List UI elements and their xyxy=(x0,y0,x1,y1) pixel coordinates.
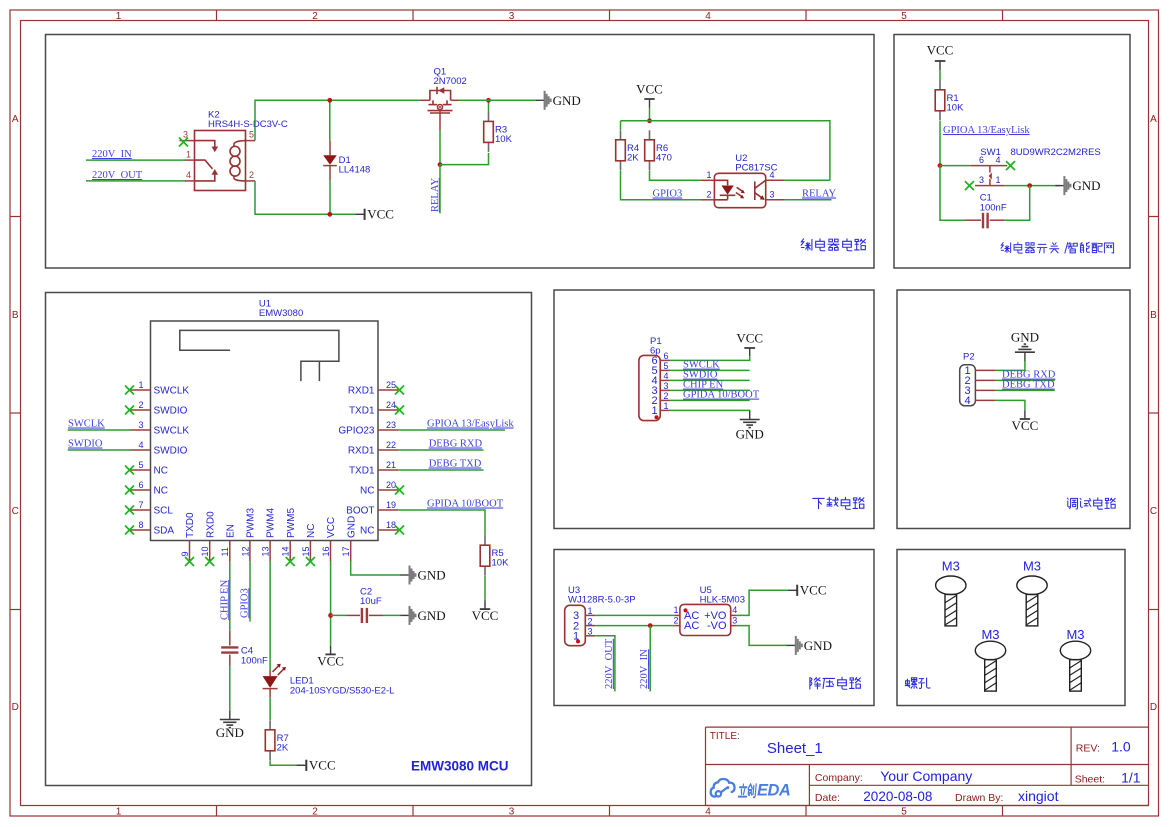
svg-text:1: 1 xyxy=(186,150,191,160)
wire LED1 to R7 xyxy=(269,697,271,720)
wire node down to C1 xyxy=(940,166,966,221)
screw hole M3 #3 xyxy=(975,627,1005,691)
svg-text:SWCLK: SWCLK xyxy=(154,426,190,437)
svg-text:SWCLK: SWCLK xyxy=(68,419,105,430)
svg-text:3: 3 xyxy=(509,11,515,22)
svg-text:10K: 10K xyxy=(947,102,965,113)
net label 220V_OUT (vertical) xyxy=(604,638,615,689)
svg-text:6: 6 xyxy=(138,480,143,490)
power flag GND switch xyxy=(1055,176,1100,195)
wire P2 pin1 to GND xyxy=(995,361,1025,370)
svg-text:DEBG TXD: DEBG TXD xyxy=(1002,380,1055,391)
svg-text:204-10SYGD/S530-E2-L: 204-10SYGD/S530-E2-L xyxy=(290,685,395,696)
wire VCC stem to opto rail xyxy=(649,108,651,121)
svg-text:AC: AC xyxy=(684,620,699,632)
svg-text:2: 2 xyxy=(138,400,143,410)
svg-text:GPIDA 10/BOOT: GPIDA 10/BOOT xyxy=(683,390,760,401)
relay switch / smart-config block box xyxy=(894,35,1130,269)
resistor R4 2K xyxy=(616,130,640,170)
svg-text:25: 25 xyxy=(386,380,396,390)
svg-text:A: A xyxy=(1150,114,1157,125)
screw hole M3 #4 xyxy=(1060,627,1090,691)
svg-text:1: 1 xyxy=(116,807,122,818)
svg-text:BOOT: BOOT xyxy=(346,506,374,517)
svg-text:2: 2 xyxy=(249,170,254,180)
caption 降压电路 xyxy=(810,677,861,689)
svg-text:B: B xyxy=(12,310,19,321)
wire SWCLK to U1 pin3 xyxy=(68,429,131,431)
svg-text:HRS4H-S-DC3V-C: HRS4H-S-DC3V-C xyxy=(208,119,288,130)
wire node to SW1 pin6 xyxy=(940,165,971,167)
caption 调试电路 xyxy=(1067,498,1115,509)
relay circuit block box xyxy=(46,35,875,269)
screw holes block box xyxy=(897,550,1125,706)
svg-text:12: 12 xyxy=(240,546,250,556)
svg-text:220V_IN: 220V_IN xyxy=(92,149,132,160)
power flag VCC under R5 xyxy=(472,601,499,624)
wire C4 to GND xyxy=(229,666,231,712)
svg-text:4: 4 xyxy=(964,395,970,407)
power flag VCC R7 xyxy=(297,758,336,773)
svg-text:11: 11 xyxy=(220,547,230,556)
title label REV: xyxy=(1076,742,1100,754)
svg-text:1: 1 xyxy=(138,380,143,390)
svg-text:CHIP EN: CHIP EN xyxy=(219,579,230,620)
svg-text:18: 18 xyxy=(386,520,396,530)
wire U1 pin22 xyxy=(398,449,484,451)
wire P1 pin5 xyxy=(670,369,750,371)
junction opto rail xyxy=(647,118,652,123)
svg-text:PWM3: PWM3 xyxy=(246,508,257,538)
power flag VCC P2 xyxy=(1012,410,1039,433)
wire 220V_OUT to K2 pin4 xyxy=(86,180,185,182)
frame row ticks xyxy=(10,217,1159,610)
svg-text:1: 1 xyxy=(673,605,678,615)
svg-text:GND: GND xyxy=(346,516,357,538)
header P2 xyxy=(960,352,995,408)
wire U1 pin21 xyxy=(398,469,484,471)
wire P2 pin4 to VCC xyxy=(995,400,1025,410)
svg-text:Company:: Company: xyxy=(815,772,863,784)
svg-text:17: 17 xyxy=(341,546,351,556)
svg-text:GND: GND xyxy=(804,638,832,653)
net label CHIP EN P1 xyxy=(683,380,724,391)
svg-text:8: 8 xyxy=(138,520,143,530)
frame column numbers top xyxy=(116,11,908,22)
svg-text:RXD0: RXD0 xyxy=(205,511,216,538)
net label GPIDA 10/BOOT P1 xyxy=(683,390,760,401)
svg-text:23: 23 xyxy=(386,420,396,430)
frame row letters left xyxy=(12,114,19,713)
net label GPIO3 (vertical) xyxy=(239,588,250,618)
wire RELAY stub down xyxy=(439,165,441,214)
wire U1 pin13 to LED1 xyxy=(269,561,271,670)
caption EMW3080 MCU xyxy=(411,759,509,774)
svg-text:VCC: VCC xyxy=(472,608,499,623)
logo text 立创EDA xyxy=(738,782,790,800)
net label SWDIO P1 xyxy=(683,370,718,381)
title value 1.0 xyxy=(1111,738,1131,754)
svg-text:2: 2 xyxy=(673,615,678,625)
svg-text:1.0: 1.0 xyxy=(1111,738,1131,754)
svg-text:M3: M3 xyxy=(1023,559,1041,574)
wire D1 to bottom rail xyxy=(329,180,331,214)
svg-text:4: 4 xyxy=(186,170,191,180)
net label 220V_IN (vertical) xyxy=(639,649,650,689)
svg-text:GND: GND xyxy=(418,568,446,583)
svg-text:VCC: VCC xyxy=(636,82,663,97)
wire U1 pin12 GPIO3 xyxy=(249,561,251,622)
wire P1 pin2 xyxy=(670,399,750,401)
svg-text:D: D xyxy=(1150,702,1157,713)
wire C2 to GND xyxy=(384,614,401,616)
svg-text:xingiot: xingiot xyxy=(1018,788,1059,804)
svg-text:VCC: VCC xyxy=(367,207,394,222)
svg-text:GPIO3: GPIO3 xyxy=(653,189,683,200)
wire C1 up to pin1 node xyxy=(1005,186,1030,221)
frame column numbers bottom xyxy=(116,807,908,818)
net label DEBG RXD mcu xyxy=(429,439,483,450)
wire 220V_IN to K2 pin1 xyxy=(86,159,185,161)
svg-text:Your Company: Your Company xyxy=(880,768,972,784)
frame column ticks xyxy=(217,10,1003,816)
net label GPIDA 10/BOOT mcu xyxy=(427,499,504,510)
svg-text:NC: NC xyxy=(154,466,168,477)
net label DEBG TXD P2 xyxy=(1002,380,1055,391)
svg-text:GPIO23: GPIO23 xyxy=(338,426,375,437)
svg-text:VCC: VCC xyxy=(927,43,954,58)
title value 2020-08-08 xyxy=(863,789,932,804)
svg-text:DEBG TXD: DEBG TXD xyxy=(429,459,482,470)
svg-text:NC: NC xyxy=(360,486,374,497)
wire SWDIO to U1 pin4 xyxy=(68,449,131,451)
svg-text:VCC: VCC xyxy=(800,583,827,598)
wire U3 pin1 to U5 xyxy=(595,614,674,616)
power flag GND relay rail xyxy=(536,91,581,110)
svg-text:VCC: VCC xyxy=(317,653,344,668)
resistor R3 10K xyxy=(484,112,513,152)
svg-text:3: 3 xyxy=(588,627,593,637)
svg-text:2: 2 xyxy=(312,11,318,22)
svg-text:2N7002: 2N7002 xyxy=(434,76,467,87)
svg-text:TXD0: TXD0 xyxy=(185,512,196,538)
svg-text:GND: GND xyxy=(1011,330,1039,345)
wire U1 pin19 to R5 xyxy=(398,510,485,536)
svg-text:7: 7 xyxy=(138,500,143,510)
svg-text:19: 19 xyxy=(386,500,396,510)
wire R7 to VCC xyxy=(270,761,304,766)
wire U1 pin11 to C4 xyxy=(229,561,231,631)
junction Q1 gate node xyxy=(438,162,443,167)
svg-text:220V_OUT: 220V_OUT xyxy=(604,638,615,689)
capacitor C4 100nF xyxy=(221,631,268,667)
MCU U1 EMW3080 xyxy=(125,299,404,567)
junction D1 bottom xyxy=(327,212,332,217)
wire K2 pin2 down to bottom rail xyxy=(255,181,330,214)
connector U3 WJ128R-5.0-3P xyxy=(565,585,636,646)
svg-text:4: 4 xyxy=(138,440,143,450)
caption 继电器电路 xyxy=(801,239,865,251)
wire opto top rail xyxy=(621,121,830,170)
svg-text:PWM4: PWM4 xyxy=(266,508,277,538)
svg-text:RELAY: RELAY xyxy=(430,178,441,212)
net label GPIOA 13/EasyLisk mcu xyxy=(427,419,514,430)
svg-text:13: 13 xyxy=(261,546,271,556)
svg-text:SWDIO: SWDIO xyxy=(154,406,188,417)
wire Q1 to GND xyxy=(459,99,536,101)
title value Sheet_1 xyxy=(767,740,823,757)
wire U5 pin4 to VCC xyxy=(736,590,787,615)
svg-text:14: 14 xyxy=(281,546,291,556)
wire rail down to R4 xyxy=(620,121,622,130)
svg-text:GPIDA 10/BOOT: GPIDA 10/BOOT xyxy=(427,499,504,510)
svg-text:5: 5 xyxy=(138,460,143,470)
wire U3 pin2 to U5 xyxy=(595,625,674,627)
svg-text:D: D xyxy=(12,702,19,713)
svg-text:2: 2 xyxy=(312,807,318,818)
svg-text:6: 6 xyxy=(979,155,984,165)
svg-text:1: 1 xyxy=(664,401,669,411)
svg-text:Drawn By:: Drawn By: xyxy=(955,792,1003,804)
svg-text:3: 3 xyxy=(770,190,775,200)
svg-text:2: 2 xyxy=(588,616,593,626)
svg-text:GPIOA 13/EasyLisk: GPIOA 13/EasyLisk xyxy=(943,125,1030,136)
svg-text:10K: 10K xyxy=(495,134,513,145)
wire R1 to switch node xyxy=(939,121,941,166)
wire U5 pin3 to GND xyxy=(736,626,787,646)
screw hole M3 #2 xyxy=(1017,559,1047,626)
svg-text:24: 24 xyxy=(386,400,396,410)
svg-text:LL4148: LL4148 xyxy=(339,165,371,176)
caption 继电器开关/智能配网 xyxy=(1001,242,1114,253)
wire P2 pin2 xyxy=(995,379,1055,381)
svg-text:GND: GND xyxy=(553,93,581,108)
svg-text:P2: P2 xyxy=(963,352,975,363)
net label SWDIO mcu xyxy=(68,439,103,450)
svg-text:3: 3 xyxy=(664,381,669,391)
svg-text:REV:: REV: xyxy=(1076,742,1100,754)
wire VCC to R1 xyxy=(939,70,941,81)
svg-text:4: 4 xyxy=(705,807,711,818)
svg-text:RELAY: RELAY xyxy=(802,189,836,200)
svg-text:16: 16 xyxy=(321,546,331,556)
wire bottom rail D1 to VCC xyxy=(330,213,355,215)
svg-text:EMW3080 MCU: EMW3080 MCU xyxy=(411,759,509,774)
svg-text:VCC: VCC xyxy=(309,758,336,773)
svg-text:3: 3 xyxy=(732,615,737,625)
download circuit block box xyxy=(554,290,874,529)
wire R5 to VCC xyxy=(484,576,486,601)
svg-text:GND: GND xyxy=(418,608,446,623)
logo cloud EasyEDA xyxy=(711,779,735,797)
wire gate node to R3 xyxy=(440,153,489,165)
transistor Q1 2N7002 xyxy=(420,67,467,131)
svg-text:5: 5 xyxy=(901,11,907,22)
wire R4 to GPIO3 row xyxy=(621,171,701,200)
title value xingiot xyxy=(1018,788,1059,804)
wire R3 top to rail xyxy=(488,100,490,112)
svg-text:GND: GND xyxy=(216,725,244,740)
junction SW1 pin1 node xyxy=(1027,183,1032,188)
svg-text:VCC: VCC xyxy=(1012,418,1039,433)
svg-text:WJ128R-5.0-3P: WJ128R-5.0-3P xyxy=(568,595,636,606)
svg-text:5: 5 xyxy=(249,130,254,140)
svg-text:EMW3080: EMW3080 xyxy=(259,308,303,319)
svg-text:NC: NC xyxy=(154,486,168,497)
resistor R1 10K xyxy=(935,80,964,120)
title block grid xyxy=(706,727,1149,805)
svg-text:Sheet_1: Sheet_1 xyxy=(767,740,823,757)
svg-text:C: C xyxy=(12,506,19,517)
svg-text:NC: NC xyxy=(306,524,317,538)
net label GPIOA 13/EasyLisk xyxy=(943,125,1030,136)
svg-text:10: 10 xyxy=(200,546,210,556)
svg-text:1: 1 xyxy=(588,606,593,616)
svg-text:1: 1 xyxy=(116,11,122,22)
svg-text:1: 1 xyxy=(996,175,1001,185)
net label DEBG TXD mcu xyxy=(429,459,482,470)
net label 220V_OUT xyxy=(92,170,143,181)
svg-text:10uF: 10uF xyxy=(360,596,382,607)
wire U2 pin3 to RELAY xyxy=(784,199,831,201)
svg-text:SWDIO: SWDIO xyxy=(68,439,103,450)
power flag GND buck xyxy=(787,636,832,655)
screw hole M3 #1 xyxy=(936,559,966,626)
svg-text:4: 4 xyxy=(705,11,711,22)
module U5 HLK-5M03 xyxy=(673,585,745,636)
wire K2 pin5 up to top rail xyxy=(255,100,420,140)
wire P2 pin3 xyxy=(995,389,1055,391)
debug circuit block box xyxy=(897,290,1130,529)
svg-text:470: 470 xyxy=(656,152,672,163)
svg-text:5: 5 xyxy=(901,807,907,818)
svg-text:TXD1: TXD1 xyxy=(349,406,375,417)
svg-text:100nF: 100nF xyxy=(980,202,1007,213)
net label CHIP EN (vertical) xyxy=(219,579,230,620)
junction R3 top xyxy=(486,98,491,103)
wire P1 pin6 to VCC xyxy=(670,356,750,360)
buck converter block box xyxy=(554,550,874,706)
wire SW1 pin1 to GND xyxy=(1005,185,1060,187)
MCU block box xyxy=(46,293,532,786)
wire U3 pin3 to 220V_OUT xyxy=(595,636,615,692)
svg-text:-VO: -VO xyxy=(707,620,727,632)
power flag VCC switch xyxy=(927,43,954,70)
svg-text:2020-08-08: 2020-08-08 xyxy=(863,789,932,804)
earth ground P1 xyxy=(736,411,764,442)
svg-text:GND: GND xyxy=(1072,178,1100,193)
led LED1 204-10SYGD/S530-E2-L xyxy=(263,664,395,698)
svg-text:9: 9 xyxy=(180,551,190,556)
optocoupler U2 PC817SC xyxy=(701,153,785,208)
svg-text:B: B xyxy=(1150,310,1157,321)
title label TITLE: xyxy=(710,731,740,742)
svg-text:4: 4 xyxy=(996,155,1001,165)
svg-text:C: C xyxy=(1150,506,1157,517)
earth ground C4 xyxy=(216,711,244,740)
svg-text:100nF: 100nF xyxy=(241,655,268,666)
power flag VCC P1 xyxy=(736,331,763,357)
power flag VCC buck xyxy=(788,583,827,598)
svg-text:M3: M3 xyxy=(981,627,999,642)
switch SW1 8UD9WR2C2M2RES xyxy=(965,147,1101,190)
junction D1 top xyxy=(327,98,332,103)
power flag GND C2 xyxy=(401,606,446,625)
svg-text:TXD1: TXD1 xyxy=(349,466,375,477)
svg-text:15: 15 xyxy=(301,546,311,556)
wire U2 pin4 to rail xyxy=(784,179,830,181)
svg-text:NC: NC xyxy=(360,526,374,537)
title label Sheet: xyxy=(1075,773,1105,785)
svg-text:6: 6 xyxy=(664,351,669,361)
svg-text:SDA: SDA xyxy=(154,526,175,537)
svg-text:RXD1: RXD1 xyxy=(348,446,375,457)
diode D1 LL4148 xyxy=(323,141,370,181)
junction 220V_IN node xyxy=(648,623,653,628)
svg-text:2: 2 xyxy=(664,391,669,401)
svg-text:Date:: Date: xyxy=(815,792,840,804)
resistor R6 470 xyxy=(645,130,672,170)
frame row letters right xyxy=(1150,114,1157,713)
svg-text:21: 21 xyxy=(386,460,396,470)
wire R6 to U2 pin1 xyxy=(650,171,701,181)
net label GPIO3 xyxy=(653,189,683,200)
resistor R5 10K xyxy=(480,536,509,576)
wire P1 pin1 to GND xyxy=(670,409,750,412)
svg-text:2K: 2K xyxy=(627,152,639,163)
svg-text:1: 1 xyxy=(651,405,657,417)
svg-text:VCC: VCC xyxy=(736,331,763,346)
wire U1 pin17 to GND xyxy=(351,561,401,575)
svg-text:RXD1: RXD1 xyxy=(348,386,375,397)
svg-text:SCL: SCL xyxy=(154,506,174,517)
wire U1 pin23 xyxy=(398,429,505,431)
svg-text:3: 3 xyxy=(138,420,143,430)
power flag VCC pin16 xyxy=(317,646,344,669)
title value 1/1 xyxy=(1121,769,1141,785)
capacitor C2 10uF xyxy=(347,587,384,624)
svg-text:8UD9WR2C2M2RES: 8UD9WR2C2M2RES xyxy=(1011,147,1101,158)
svg-text:4: 4 xyxy=(732,605,737,615)
net label RELAY (vertical) xyxy=(430,178,441,212)
svg-text:GPIOA 13/EasyLisk: GPIOA 13/EasyLisk xyxy=(427,419,514,430)
power flag GND pin17 xyxy=(401,566,446,585)
net label DEBG RXD P2 xyxy=(1002,370,1056,381)
net label 220V_IN xyxy=(92,149,132,160)
title label Drawn By: xyxy=(955,792,1003,804)
wire P1 pin3 xyxy=(670,389,750,391)
capacitor C1 100nF xyxy=(966,193,1007,229)
net label SWCLK P1 xyxy=(683,360,720,371)
net label RELAY opto xyxy=(802,189,836,200)
title label Date: xyxy=(815,792,840,804)
svg-text:SWCLK: SWCLK xyxy=(154,386,190,397)
svg-text:M3: M3 xyxy=(942,559,960,574)
svg-text:A: A xyxy=(12,114,19,125)
svg-text:5: 5 xyxy=(664,361,669,371)
wire 220V_IN drop xyxy=(649,626,651,692)
svg-text:4: 4 xyxy=(770,170,775,180)
svg-text:1: 1 xyxy=(707,170,712,180)
wire U1 pin16 VCC net xyxy=(330,561,332,646)
wire P1 pin4 xyxy=(670,379,750,381)
svg-text:2: 2 xyxy=(707,190,712,200)
svg-text:VCC: VCC xyxy=(326,517,337,538)
svg-text:3: 3 xyxy=(979,175,984,185)
resistor R7 2K xyxy=(265,720,289,760)
svg-text:EDA: EDA xyxy=(757,782,790,800)
title value Your Company xyxy=(880,768,972,784)
